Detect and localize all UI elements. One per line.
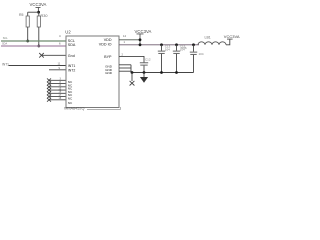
svg-text:U2: U2 [65,29,71,34]
svg-text:C12: C12 [145,58,151,62]
capacitor C16 [181,43,204,72]
wire GND stub 1 [119,64,131,66]
svg-text:C16: C16 [181,46,187,50]
svg-text:R30: R30 [41,14,48,18]
node cap BYP to gnd [143,71,146,74]
wire BYP [119,56,144,62]
inductor LB1 [198,35,230,45]
node VDDIO/VCC [139,43,142,46]
wire GND stub 2 [119,67,131,69]
node: pull-up rail junction [37,11,40,14]
resistor R5 [19,12,29,41]
node VDD/VCC [139,38,142,41]
wire SDA (purple) [1,45,66,47]
capacitor C12 (BYP) [140,58,151,73]
svg-text:GND: GND [105,71,113,75]
svg-text:SDA: SDA [68,43,76,47]
NC stub 1 with X [47,78,66,83]
NC stub 3 with X [47,84,66,89]
NC stub 5 with X [47,91,66,96]
wire INT1 [9,65,67,67]
wire INT2 stub [49,69,66,71]
node gnd collector [131,71,134,74]
wire: pull-up top rail [28,11,39,13]
power flag VCC3VA (top-left) [30,2,47,12]
ground (AGND triangle) [140,73,148,83]
wire GND rail [131,72,194,74]
svg-text:VCC3VA: VCC3VA [135,29,152,34]
NC stub 4 with X [47,87,66,92]
resistor R30 [37,12,47,46]
IC U2 MMA8452Q body [66,36,119,108]
wire VDDIO rail [119,44,199,46]
svg-text:VCC3VA: VCC3VA [30,2,47,7]
svg-text:INT2: INT2 [68,68,76,72]
svg-text:Gnd: Gnd [68,54,75,58]
svg-text:MMA8452Q: MMA8452Q [64,107,84,111]
svg-text:BYP: BYP [104,55,112,59]
NC stub 6 with X [47,94,66,99]
svg-text:SCL: SCL [3,37,8,40]
svg-text:NC: NC [68,101,73,105]
svg-text:104: 104 [199,52,204,56]
capacitor C13 [158,43,171,74]
wire GND stub 3 [119,70,131,72]
capacitor C15 [173,43,186,74]
pin Gnd stub with no-connect X [39,53,66,58]
svg-text:VDD IO: VDD IO [99,42,112,46]
svg-text:R5: R5 [19,13,24,17]
node: R30 to SDA [37,45,40,48]
svg-text:LB1: LB1 [205,35,211,39]
NC stub 7 with X [47,97,66,102]
svg-text:VCC3VA: VCC3VA [224,34,240,39]
no-connect X stub below gnd rail [130,73,135,86]
power flag VCC3VA (above VDD) [135,29,152,45]
svg-text:NC: NC [68,96,73,100]
wire SCL (green) [1,40,66,42]
wire GND collector [130,65,132,73]
svg-text:SDA: SDA [2,43,7,46]
node: R5 to SCL [26,40,29,43]
svg-text:VDD: VDD [104,38,112,42]
NC stub 2 with X [47,81,66,86]
power flag VCC3VA (far right) [224,34,240,39]
svg-text:INT1: INT1 [2,63,9,67]
svg-text:104: 104 [165,48,170,52]
wire VDD [119,39,140,41]
